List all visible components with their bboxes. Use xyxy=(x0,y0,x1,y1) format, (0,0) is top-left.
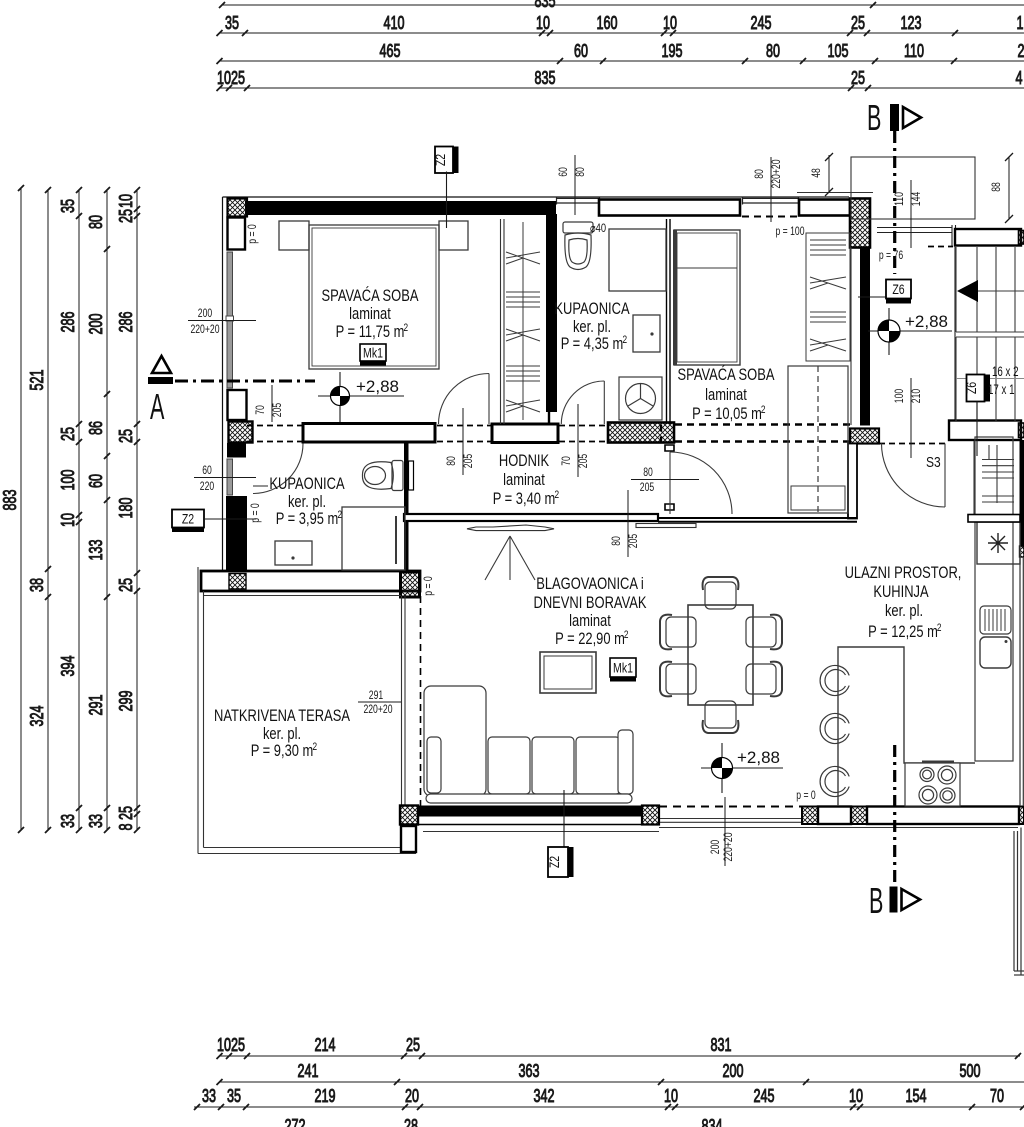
south wall outlined band C-D xyxy=(867,807,1019,825)
living south-west hatch block xyxy=(400,806,418,825)
left dimension chain B xyxy=(47,190,49,830)
svg-text:100: 100 xyxy=(892,389,906,404)
svg-text:160: 160 xyxy=(597,13,618,33)
stairs mid band xyxy=(949,421,1021,441)
svg-text:Z2: Z2 xyxy=(433,154,448,166)
svg-text:33: 33 xyxy=(202,1086,216,1106)
svg-text:p = 0: p = 0 xyxy=(248,503,262,523)
svg-text:laminat: laminat xyxy=(503,471,545,489)
svg-text:ker. pl.: ker. pl. xyxy=(263,725,301,743)
svg-text:144: 144 xyxy=(909,192,923,207)
bed 1 xyxy=(309,225,439,369)
svg-text:10: 10 xyxy=(849,1086,863,1106)
bottom dimension row 3 xyxy=(194,1106,1024,1108)
svg-text:p = 76: p = 76 xyxy=(879,248,904,262)
svg-text:220+20: 220+20 xyxy=(721,832,735,861)
svg-text:P = 9,30 m: P = 9,30 m xyxy=(251,742,314,760)
svg-text:200: 200 xyxy=(723,1061,744,1081)
left dimension chain E xyxy=(136,190,138,830)
dashed opening entry S3 xyxy=(879,443,948,445)
south wall hatch block D right corner xyxy=(1019,807,1024,825)
svg-text:272: 272 xyxy=(285,1116,306,1127)
terrace top wall hatch right xyxy=(401,572,420,597)
chair top xyxy=(703,577,739,609)
kitchen peninsula xyxy=(838,647,975,806)
svg-text:220+20: 220+20 xyxy=(769,159,783,188)
window dim left 200/220+20 xyxy=(188,306,256,336)
svg-text:ULAZNI PROSTOR,: ULAZNI PROSTOR, xyxy=(845,564,962,582)
dim 88 xyxy=(989,153,1013,223)
Z6 box entry xyxy=(858,280,911,304)
svg-text:10: 10 xyxy=(663,13,677,33)
coffee table xyxy=(540,652,596,693)
svg-text:2: 2 xyxy=(555,489,560,501)
washing machine bathroom1 xyxy=(619,377,662,420)
kitchen east wall lines lower xyxy=(1020,557,1023,806)
terrace top wall hatch left xyxy=(229,574,246,590)
interior wall corridor top (492-558) xyxy=(492,424,558,443)
bottom dimension row 1 xyxy=(219,1055,1020,1057)
terrace-living glass wall xyxy=(402,596,406,806)
svg-text:10: 10 xyxy=(664,1086,678,1106)
svg-text:110: 110 xyxy=(892,192,906,206)
left wall black column xyxy=(227,443,246,458)
stairs flight 2 treads xyxy=(956,337,1024,421)
svg-text:220+20: 220+20 xyxy=(190,322,219,336)
svg-text:200: 200 xyxy=(198,306,213,320)
terrace top wall outlined band xyxy=(201,571,420,591)
svg-text:245: 245 xyxy=(751,13,772,33)
svg-text:38: 38 xyxy=(27,578,47,592)
window dim south 200/220+20 xyxy=(708,797,735,866)
svg-text:105: 105 xyxy=(828,41,849,61)
bedroom2 east wall black xyxy=(860,248,870,426)
svg-text:P = 3,95 m: P = 3,95 m xyxy=(276,510,339,528)
top dimension row 1 xyxy=(222,4,1024,6)
svg-text:831: 831 xyxy=(711,1035,732,1055)
stair window top xyxy=(877,225,956,246)
dashed opening under bedroom2 window xyxy=(742,216,800,218)
door dim 70/205 bathroom1 xyxy=(559,404,590,477)
window dim bedroom2 80/220+20 xyxy=(752,157,783,222)
svg-text:80: 80 xyxy=(444,456,458,466)
left wall black band lower xyxy=(226,496,247,571)
svg-text:P = 10,05 m: P = 10,05 m xyxy=(692,405,762,423)
entry south wall lines xyxy=(658,518,857,522)
svg-text:33: 33 xyxy=(58,814,78,828)
bar stool 2 xyxy=(820,714,849,744)
svg-text:17 x 1: 17 x 1 xyxy=(988,382,1015,397)
dashed door head bathroom2 xyxy=(247,426,303,442)
entry west wall (848-857) xyxy=(848,444,857,519)
svg-text:521: 521 xyxy=(27,370,47,391)
svg-text:70: 70 xyxy=(990,1086,1004,1106)
svg-text:16 x 2: 16 x 2 xyxy=(992,364,1019,379)
svg-text:210: 210 xyxy=(909,389,923,404)
svg-text:ker. pl.: ker. pl. xyxy=(885,602,923,620)
chair left 1 xyxy=(660,615,696,650)
svg-text:195: 195 xyxy=(662,41,683,61)
dim 100/210 xyxy=(892,378,923,458)
top-left corner column hatched xyxy=(228,199,248,217)
stairs landing wall left xyxy=(954,246,956,421)
south wall solid under sofa xyxy=(418,806,642,817)
svg-text:465: 465 xyxy=(380,41,401,61)
section marker B top xyxy=(867,97,921,274)
bathroom window top 60/80 xyxy=(556,197,600,205)
svg-text:25: 25 xyxy=(116,806,136,820)
svg-text:p = 0: p = 0 xyxy=(421,576,435,596)
svg-text:410: 410 xyxy=(384,13,405,33)
door arc bathroom1 xyxy=(561,381,604,424)
svg-text:8: 8 xyxy=(116,824,136,831)
svg-text:2: 2 xyxy=(404,322,409,334)
top wall outlined band right xyxy=(799,200,850,216)
svg-text:2: 2 xyxy=(937,622,942,634)
nightstand right bed1 xyxy=(439,221,468,250)
window dim left 60/220 xyxy=(194,463,256,493)
left window 200/220+20 glazing xyxy=(226,252,234,388)
svg-text:200: 200 xyxy=(86,314,106,335)
svg-text:25: 25 xyxy=(851,13,865,33)
chair right 1 xyxy=(746,615,782,650)
svg-text:2: 2 xyxy=(313,741,318,753)
svg-text:25: 25 xyxy=(58,427,78,441)
svg-text:205: 205 xyxy=(640,480,655,494)
bathroom2 east wall xyxy=(404,443,409,570)
dashed line near stairs top xyxy=(928,246,953,248)
sink drainboard xyxy=(980,606,1011,634)
bedroom2 SE hatch block xyxy=(850,429,879,444)
svg-text:S3: S3 xyxy=(926,454,941,471)
door arc bedroom1 xyxy=(439,374,490,425)
svg-text:33: 33 xyxy=(86,814,106,828)
Mk1 box living xyxy=(610,658,636,682)
svg-text:205: 205 xyxy=(270,403,284,418)
svg-text:P = 11,75 m: P = 11,75 m xyxy=(336,323,405,341)
svg-text:214: 214 xyxy=(315,1035,336,1055)
chair left 2 xyxy=(660,662,696,697)
svg-text:133: 133 xyxy=(86,540,106,561)
nightstand left bed1 xyxy=(279,221,309,250)
svg-text:2: 2 xyxy=(623,334,628,346)
south wall dashed opening p=0 xyxy=(659,806,801,808)
svg-text:Z2: Z2 xyxy=(547,856,562,868)
window dim terrace 291/220+20 xyxy=(358,688,401,716)
toilet bathroom2 xyxy=(362,461,403,491)
svg-text:35: 35 xyxy=(58,199,78,213)
svg-text:25: 25 xyxy=(116,429,136,443)
top-right corner column hatched xyxy=(850,199,870,248)
bathroom1 east wall xyxy=(667,219,671,424)
Z2 box top xyxy=(433,147,459,229)
door dim 80/205 corridor horizontal xyxy=(631,465,699,494)
svg-text:154: 154 xyxy=(906,1086,927,1106)
svg-text:25: 25 xyxy=(406,1035,420,1055)
svg-text:Mk1: Mk1 xyxy=(363,346,383,361)
svg-text:80: 80 xyxy=(766,41,780,61)
top dimension row 2 xyxy=(219,32,1024,34)
svg-text:KUPAONICA: KUPAONICA xyxy=(269,475,344,493)
svg-text:P = 3,40 m: P = 3,40 m xyxy=(493,490,556,508)
svg-text:180: 180 xyxy=(116,498,136,519)
svg-text:219: 219 xyxy=(315,1086,336,1106)
left wall hatched block at interior wall xyxy=(229,422,253,443)
top wall outlined band over bathroom/bedroom2 xyxy=(599,200,740,216)
svg-text:205: 205 xyxy=(576,454,590,469)
south wall outlined band B-C xyxy=(818,807,851,825)
svg-text:KUPAONICA: KUPAONICA xyxy=(554,300,629,318)
dashed door head bedroom1 xyxy=(437,426,491,442)
svg-text:220+20: 220+20 xyxy=(363,702,392,716)
ceiling lamp symbol xyxy=(485,536,535,580)
svg-text:25: 25 xyxy=(116,578,136,592)
vanity bathroom2 xyxy=(275,541,312,565)
stairs flight 1 treads xyxy=(956,247,1024,332)
bar stool 1 xyxy=(820,666,849,696)
svg-text:241: 241 xyxy=(298,1061,319,1081)
svg-text:80: 80 xyxy=(609,536,623,546)
svg-text:299: 299 xyxy=(116,691,136,712)
entrance steps xyxy=(974,441,1014,514)
svg-text:⌀40: ⌀40 xyxy=(590,221,606,235)
left wall column under corner xyxy=(228,218,246,250)
dim 110/144 xyxy=(892,180,923,248)
stairs top band hatch xyxy=(1019,231,1024,245)
svg-text:P = 4,35 m: P = 4,35 m xyxy=(561,335,624,353)
top wall solid (bedroom 1) xyxy=(245,201,556,215)
svg-text:88: 88 xyxy=(989,182,1003,192)
Z6 box stairs xyxy=(964,375,990,457)
left window 60/220 glazing xyxy=(227,459,233,495)
svg-text:205: 205 xyxy=(626,534,640,549)
svg-text:110: 110 xyxy=(904,41,924,61)
door arc bathroom2 xyxy=(253,444,303,494)
svg-text:+2,88: +2,88 xyxy=(737,748,780,767)
svg-text:834: 834 xyxy=(702,1116,723,1127)
svg-text:60: 60 xyxy=(86,474,106,488)
terrace left border xyxy=(198,567,204,854)
svg-text:Mk1: Mk1 xyxy=(613,661,633,676)
svg-text:835: 835 xyxy=(535,68,556,88)
svg-text:25: 25 xyxy=(116,209,136,223)
chair bottom xyxy=(703,701,739,733)
svg-text:2: 2 xyxy=(338,509,343,521)
svg-text:NATKRIVENA TERASA: NATKRIVENA TERASA xyxy=(214,707,350,725)
dim 48 xyxy=(809,153,833,196)
svg-text:2: 2 xyxy=(1018,41,1024,61)
svg-text:laminat: laminat xyxy=(349,305,391,323)
roof edge line xyxy=(797,192,873,194)
svg-text:B: B xyxy=(869,880,883,921)
bar stool 3 xyxy=(820,767,849,797)
dashed door head bathroom1 xyxy=(559,426,607,442)
svg-text:363: 363 xyxy=(519,1061,540,1081)
svg-text:HODNIK: HODNIK xyxy=(499,452,549,470)
svg-text:60: 60 xyxy=(574,41,588,61)
door arc bedroom2 xyxy=(670,452,732,514)
svg-text:48: 48 xyxy=(809,168,823,178)
svg-text:123: 123 xyxy=(901,13,922,33)
svg-text:B: B xyxy=(867,97,881,138)
left wall column mid xyxy=(228,390,247,420)
outer reference line top xyxy=(223,196,850,198)
svg-text:200: 200 xyxy=(708,840,722,855)
boiler box with symbol xyxy=(977,522,1020,564)
svg-text:SPAVAĆA SOBA: SPAVAĆA SOBA xyxy=(678,365,775,384)
svg-text:DNEVNI BORAVAK: DNEVNI BORAVAK xyxy=(534,594,647,612)
svg-text:ker. pl.: ker. pl. xyxy=(573,318,611,336)
svg-text:291: 291 xyxy=(369,688,384,702)
chair right 2 xyxy=(746,662,782,697)
Z2 box bottom xyxy=(547,790,574,877)
vanity bathroom1 xyxy=(633,315,660,352)
svg-text:28: 28 xyxy=(404,1116,418,1127)
wardrobe1 rod and symbols xyxy=(506,222,540,420)
svg-text:342: 342 xyxy=(534,1086,555,1106)
interior hatch block corridor/bedroom2 xyxy=(608,423,674,443)
svg-text:10: 10 xyxy=(116,194,136,208)
bed 2 xyxy=(674,230,740,365)
svg-text:SPAVAĆA SOBA: SPAVAĆA SOBA xyxy=(322,286,419,305)
svg-text:1: 1 xyxy=(1017,13,1024,33)
south wall lower edge under sofa xyxy=(418,824,659,826)
terrace inner top lines xyxy=(204,595,402,597)
left dimension chain C xyxy=(78,190,80,830)
shower bathroom1 xyxy=(609,229,666,291)
svg-text:324: 324 xyxy=(27,706,47,727)
svg-text:25: 25 xyxy=(851,68,865,88)
section marker B bottom xyxy=(869,745,920,921)
svg-text:394: 394 xyxy=(58,656,78,677)
wardrobe1 front lines xyxy=(501,219,505,424)
dining table xyxy=(688,605,753,705)
sofa xyxy=(424,686,633,803)
kitchen counter east xyxy=(975,437,1013,761)
south wall sliding window lines xyxy=(660,819,802,823)
svg-text:70: 70 xyxy=(253,405,267,415)
svg-text:laminat: laminat xyxy=(569,612,611,630)
corridor south wall band xyxy=(404,514,658,521)
sliding door leaf corridor xyxy=(467,524,696,531)
svg-text:1025: 1025 xyxy=(217,68,245,88)
svg-text:100: 100 xyxy=(58,470,78,491)
svg-text:2: 2 xyxy=(624,629,629,641)
interior wall bedroom1 south (303-435) xyxy=(303,424,435,443)
svg-text:883: 883 xyxy=(0,490,20,511)
Mk1 box bedroom1 xyxy=(360,344,386,366)
elevation symbol living xyxy=(701,743,783,793)
exterior side walls below south-east xyxy=(1014,828,1024,976)
svg-text:P = 12,25 m: P = 12,25 m xyxy=(868,623,938,641)
svg-text:KUHINJA: KUHINJA xyxy=(873,583,928,601)
cooktop xyxy=(905,762,960,807)
svg-text:10: 10 xyxy=(58,513,78,527)
svg-text:35: 35 xyxy=(227,1086,241,1106)
dashed opening bedroom2 south xyxy=(661,425,850,442)
svg-text:2: 2 xyxy=(761,404,766,416)
shower bathroom2 xyxy=(342,507,405,570)
svg-text:80: 80 xyxy=(573,167,587,177)
svg-text:245: 245 xyxy=(754,1086,775,1106)
toilet bathroom1 xyxy=(563,222,593,270)
svg-text:A: A xyxy=(150,386,164,427)
svg-text:500: 500 xyxy=(960,1061,981,1081)
svg-text:70: 70 xyxy=(559,456,573,466)
door arc entry S3 xyxy=(882,444,946,508)
svg-text:BLAGOVAONICA i: BLAGOVAONICA i xyxy=(536,575,644,593)
window dim bath 60/80 xyxy=(556,155,587,215)
svg-text:10: 10 xyxy=(536,13,550,33)
svg-text:p = 0: p = 0 xyxy=(245,224,259,244)
south wall hatch block B xyxy=(802,807,818,825)
wardrobe2 xyxy=(806,233,850,361)
top dimension row 4 xyxy=(219,87,1024,89)
stairs direction arrow xyxy=(957,280,978,302)
door dim 80/205 bedroom2 xyxy=(609,490,640,557)
terrace-living dashed line xyxy=(420,596,422,806)
svg-text:p = 100: p = 100 xyxy=(775,224,804,238)
sink basin xyxy=(980,637,1011,668)
bathroom2 duct xyxy=(409,461,414,490)
door jambs bedroom2 xyxy=(665,445,674,510)
svg-text:laminat: laminat xyxy=(705,386,747,404)
svg-text:35: 35 xyxy=(225,13,239,33)
closet bedroom2 dashed xyxy=(788,366,848,513)
svg-text:80: 80 xyxy=(86,215,106,229)
left dimension chain D xyxy=(106,190,108,830)
terrace bottom border xyxy=(198,848,416,854)
svg-text:4: 4 xyxy=(1016,68,1023,88)
svg-text:286: 286 xyxy=(116,312,136,333)
upper floor outline rectangle xyxy=(851,157,975,219)
svg-text:80: 80 xyxy=(643,465,653,479)
outer reference line left xyxy=(222,197,224,570)
Z2 box left xyxy=(172,510,256,533)
svg-text:+2,88: +2,88 xyxy=(356,377,399,396)
svg-text:205: 205 xyxy=(461,454,475,469)
svg-text:80: 80 xyxy=(752,169,766,179)
svg-text:ker. pl.: ker. pl. xyxy=(288,493,326,511)
svg-text:P = 22,90 m: P = 22,90 m xyxy=(555,630,625,648)
bottom dimension row 2 xyxy=(219,1081,1024,1083)
left dimension chain A 883 xyxy=(20,188,22,830)
svg-text:Z6: Z6 xyxy=(892,282,904,297)
top dimension row 3 xyxy=(219,60,1024,62)
door dim 80/205 bedroom1 xyxy=(444,408,475,475)
elevation symbol entry xyxy=(868,308,952,355)
door dim 70/205 bathroom2 xyxy=(253,385,284,422)
svg-text:+2,88: +2,88 xyxy=(905,312,948,331)
bathroom1 west wall black xyxy=(546,214,557,412)
bedroom2 window top 80/220+20 xyxy=(742,197,799,205)
svg-text:220: 220 xyxy=(200,479,215,493)
kitchen east hatch xyxy=(1020,546,1024,557)
exterior step edge line xyxy=(423,831,659,833)
svg-text:286: 286 xyxy=(58,312,78,333)
section marker A xyxy=(148,356,315,427)
elevation symbol bedroom1 xyxy=(318,372,404,422)
stairs mid band hatch xyxy=(1019,423,1024,438)
svg-text:291: 291 xyxy=(86,695,106,716)
svg-text:835: 835 xyxy=(535,0,556,11)
svg-text:p = 0: p = 0 xyxy=(796,788,816,802)
svg-text:60: 60 xyxy=(202,463,212,477)
svg-text:20: 20 xyxy=(405,1086,419,1106)
south wall hatch block A xyxy=(642,806,659,825)
stairs top band xyxy=(955,229,1021,246)
south wall hatch block C xyxy=(851,807,867,825)
